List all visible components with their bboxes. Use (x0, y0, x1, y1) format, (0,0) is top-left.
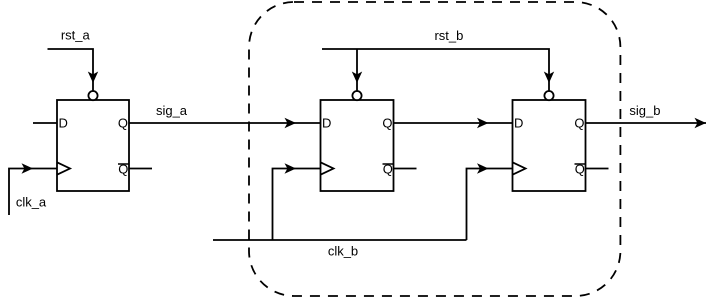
wire clk_a (9, 169, 33, 216)
arrowhead clk_a (22, 163, 34, 173)
U3 Qbar stub (586, 168, 609, 170)
wire rst_b branch to U2 (356, 49, 358, 91)
wire clk_b trunk (213, 239, 467, 241)
U1 D input stub (33, 122, 57, 124)
svg-text:Q: Q (118, 116, 128, 131)
U1 reset bubble (88, 91, 97, 100)
svg-text:Q: Q (382, 116, 392, 131)
wire sig_b output (586, 122, 707, 124)
arrowhead clk_b at U3 (477, 163, 489, 173)
wire clk_b to U3 clock (467, 169, 513, 241)
arrowhead sig_b (695, 118, 707, 128)
svg-text:Q: Q (574, 116, 584, 131)
arrowhead rst_b at U3 (544, 72, 554, 84)
wire rst_a (48, 49, 94, 91)
svg-text:D: D (514, 116, 523, 131)
wire U2.Q to U3.D (394, 122, 513, 124)
U1 clock input stub (33, 168, 57, 170)
U2 Qbar stub (394, 168, 417, 170)
wire rst_b (322, 49, 549, 91)
svg-text:rst_b: rst_b (434, 28, 463, 43)
arrowhead rst_a (88, 72, 98, 84)
clock domain B dashed boundary (249, 2, 620, 296)
flip-flop U1 (clk_a domain) (57, 100, 129, 191)
svg-text:D: D (59, 116, 68, 131)
arrowhead rst_b at U2 (352, 72, 362, 84)
arrowhead U3.D (477, 118, 489, 128)
wire sig_a (U1.Q to U2.D) (129, 122, 321, 124)
svg-text:clk_b: clk_b (328, 243, 358, 258)
arrowhead sig_a (285, 118, 297, 128)
svg-text:D: D (322, 116, 331, 131)
flip-flop U3 (second synchronizer stage) (513, 100, 586, 191)
svg-text:clk_a: clk_a (16, 195, 47, 210)
svg-text:sig_b: sig_b (629, 103, 660, 118)
svg-text:rst_a: rst_a (61, 28, 91, 43)
U3 reset bubble (544, 91, 553, 100)
U2 reset bubble (352, 91, 361, 100)
U1 Qbar stub (129, 168, 152, 170)
svg-text:sig_a: sig_a (156, 103, 188, 118)
arrowhead clk_b at U2 (285, 163, 297, 173)
wire clk_b to U2 clock (273, 169, 321, 241)
flip-flop U2 (first synchronizer stage) (321, 100, 394, 191)
